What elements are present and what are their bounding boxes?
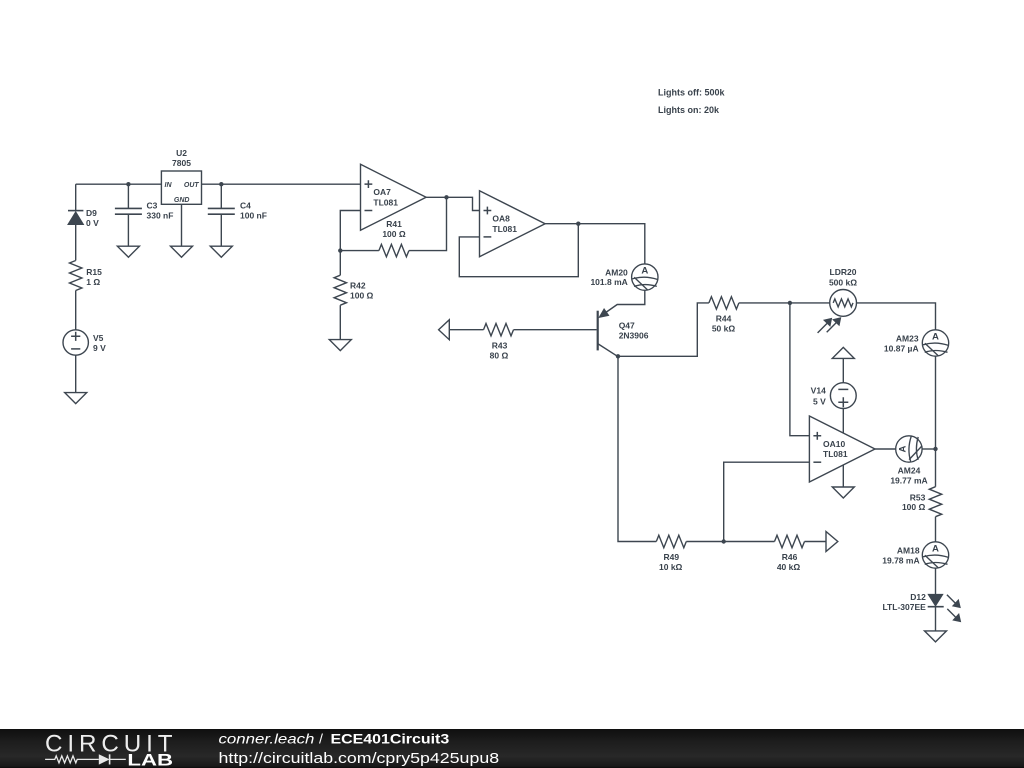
svg-text:R41: R41 xyxy=(386,219,402,229)
svg-text:10.87 µA: 10.87 µA xyxy=(884,343,919,353)
svg-text:V14: V14 xyxy=(811,386,826,396)
svg-text:100 nF: 100 nF xyxy=(240,211,267,221)
svg-text:OA10: OA10 xyxy=(823,439,845,449)
svg-text:ECE401Circuit3: ECE401Circuit3 xyxy=(331,732,450,748)
svg-text:100 Ω: 100 Ω xyxy=(350,291,374,301)
svg-text:V5: V5 xyxy=(93,333,104,343)
svg-text:100 Ω: 100 Ω xyxy=(382,229,406,239)
svg-text:R49: R49 xyxy=(664,552,680,562)
svg-text:50 kΩ: 50 kΩ xyxy=(712,323,736,333)
svg-text:330 nF: 330 nF xyxy=(147,211,174,221)
svg-text:LTL-307EE: LTL-307EE xyxy=(883,602,927,612)
svg-text:OA8: OA8 xyxy=(492,214,510,224)
svg-text:80 Ω: 80 Ω xyxy=(490,351,509,361)
svg-text:500 kΩ: 500 kΩ xyxy=(829,277,857,287)
svg-text:R15: R15 xyxy=(86,267,102,277)
svg-text:U2: U2 xyxy=(176,148,187,158)
svg-text:conner.leach: conner.leach xyxy=(219,732,315,748)
svg-text:5 V: 5 V xyxy=(813,396,826,406)
svg-text:LDR20: LDR20 xyxy=(830,267,857,277)
svg-text:/: / xyxy=(319,732,323,748)
svg-text:Q47: Q47 xyxy=(619,320,635,330)
svg-text:R43: R43 xyxy=(492,340,508,350)
svg-text:2N3906: 2N3906 xyxy=(619,330,649,340)
svg-text:C4: C4 xyxy=(240,201,251,211)
svg-text:AM20: AM20 xyxy=(605,267,628,277)
svg-text:7805: 7805 xyxy=(172,158,191,168)
svg-text:AM24: AM24 xyxy=(898,465,921,475)
svg-text:OUT: OUT xyxy=(184,182,200,189)
svg-text:http://circuitlab.com/cpry5p42: http://circuitlab.com/cpry5p425upu8 xyxy=(219,751,500,767)
svg-text:R42: R42 xyxy=(350,281,366,291)
svg-text:C3: C3 xyxy=(147,201,158,211)
svg-text:TL081: TL081 xyxy=(823,449,848,459)
svg-text:AM23: AM23 xyxy=(896,334,919,344)
svg-text:0 V: 0 V xyxy=(86,218,99,228)
svg-text:R53: R53 xyxy=(910,492,926,502)
svg-text:R46: R46 xyxy=(782,552,798,562)
svg-text:Lights on: 20k: Lights on: 20k xyxy=(658,105,720,115)
svg-text:IN: IN xyxy=(165,182,173,189)
svg-text:101.8 mA: 101.8 mA xyxy=(590,277,627,287)
svg-text:R44: R44 xyxy=(716,314,732,324)
svg-text:10 kΩ: 10 kΩ xyxy=(659,562,683,572)
svg-text:OA7: OA7 xyxy=(373,187,391,197)
svg-text:Lights off: 500k: Lights off: 500k xyxy=(658,88,726,98)
svg-text:40 kΩ: 40 kΩ xyxy=(777,562,801,572)
svg-text:19.77 mA: 19.77 mA xyxy=(890,476,927,486)
svg-text:AM18: AM18 xyxy=(897,546,920,556)
svg-text:TL081: TL081 xyxy=(373,197,398,207)
svg-text:D12: D12 xyxy=(910,592,926,602)
svg-text:LAB: LAB xyxy=(127,752,173,768)
svg-text:9 V: 9 V xyxy=(93,343,106,353)
svg-text:D9: D9 xyxy=(86,208,97,218)
svg-text:GND: GND xyxy=(174,197,190,204)
svg-text:19.78 mA: 19.78 mA xyxy=(882,556,919,566)
svg-text:1 Ω: 1 Ω xyxy=(86,277,100,287)
svg-text:100 Ω: 100 Ω xyxy=(902,502,926,512)
svg-text:TL081: TL081 xyxy=(492,224,517,234)
